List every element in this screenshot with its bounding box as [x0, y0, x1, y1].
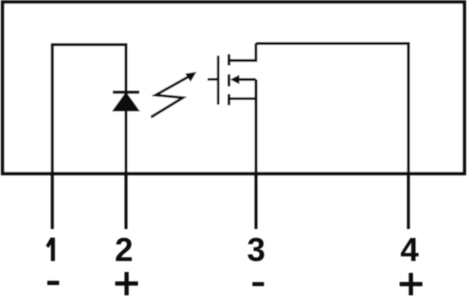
package outline box: [3, 2, 465, 174]
svg-text:4: 4: [400, 231, 419, 268]
wire pin 2 lower lead: [125, 110, 128, 229]
LED cathode bar: [113, 91, 140, 94]
MOSFET channel segment middle: [227, 74, 230, 86]
MOSFET body arrow (pointing left into channel): [230, 75, 239, 84]
polarity minus at pin 3: [252, 282, 264, 286]
polarity minus at pin 1: [47, 281, 59, 285]
polarity plus at pin 2: [115, 272, 138, 295]
light emission zigzag arrow: [151, 76, 190, 117]
pin label 1: [46, 238, 55, 261]
wire top rail to pin 4: [256, 43, 409, 229]
MOSFET drain stub and riser to top rail: [229, 43, 256, 60]
MOSFET body wire to pin 3 line: [238, 78, 256, 81]
MOSFET channel segment top: [227, 54, 230, 65]
svg-text:2: 2: [115, 231, 133, 268]
MOSFET source stub: [229, 97, 256, 100]
wire pin 1 lead up and loop top to pin 2 branch: [52, 45, 126, 229]
MOSFET gate bar: [217, 56, 220, 105]
wire pin 3 lead down: [255, 80, 258, 230]
MOSFET channel segment bottom: [227, 94, 230, 105]
LED triangle (anode, pointing up): [113, 93, 138, 111]
MOSFET gate stub: [208, 78, 219, 81]
polarity plus at pin 4: [400, 273, 423, 295]
light arrowhead: [185, 72, 196, 82]
svg-text:3: 3: [247, 231, 265, 268]
